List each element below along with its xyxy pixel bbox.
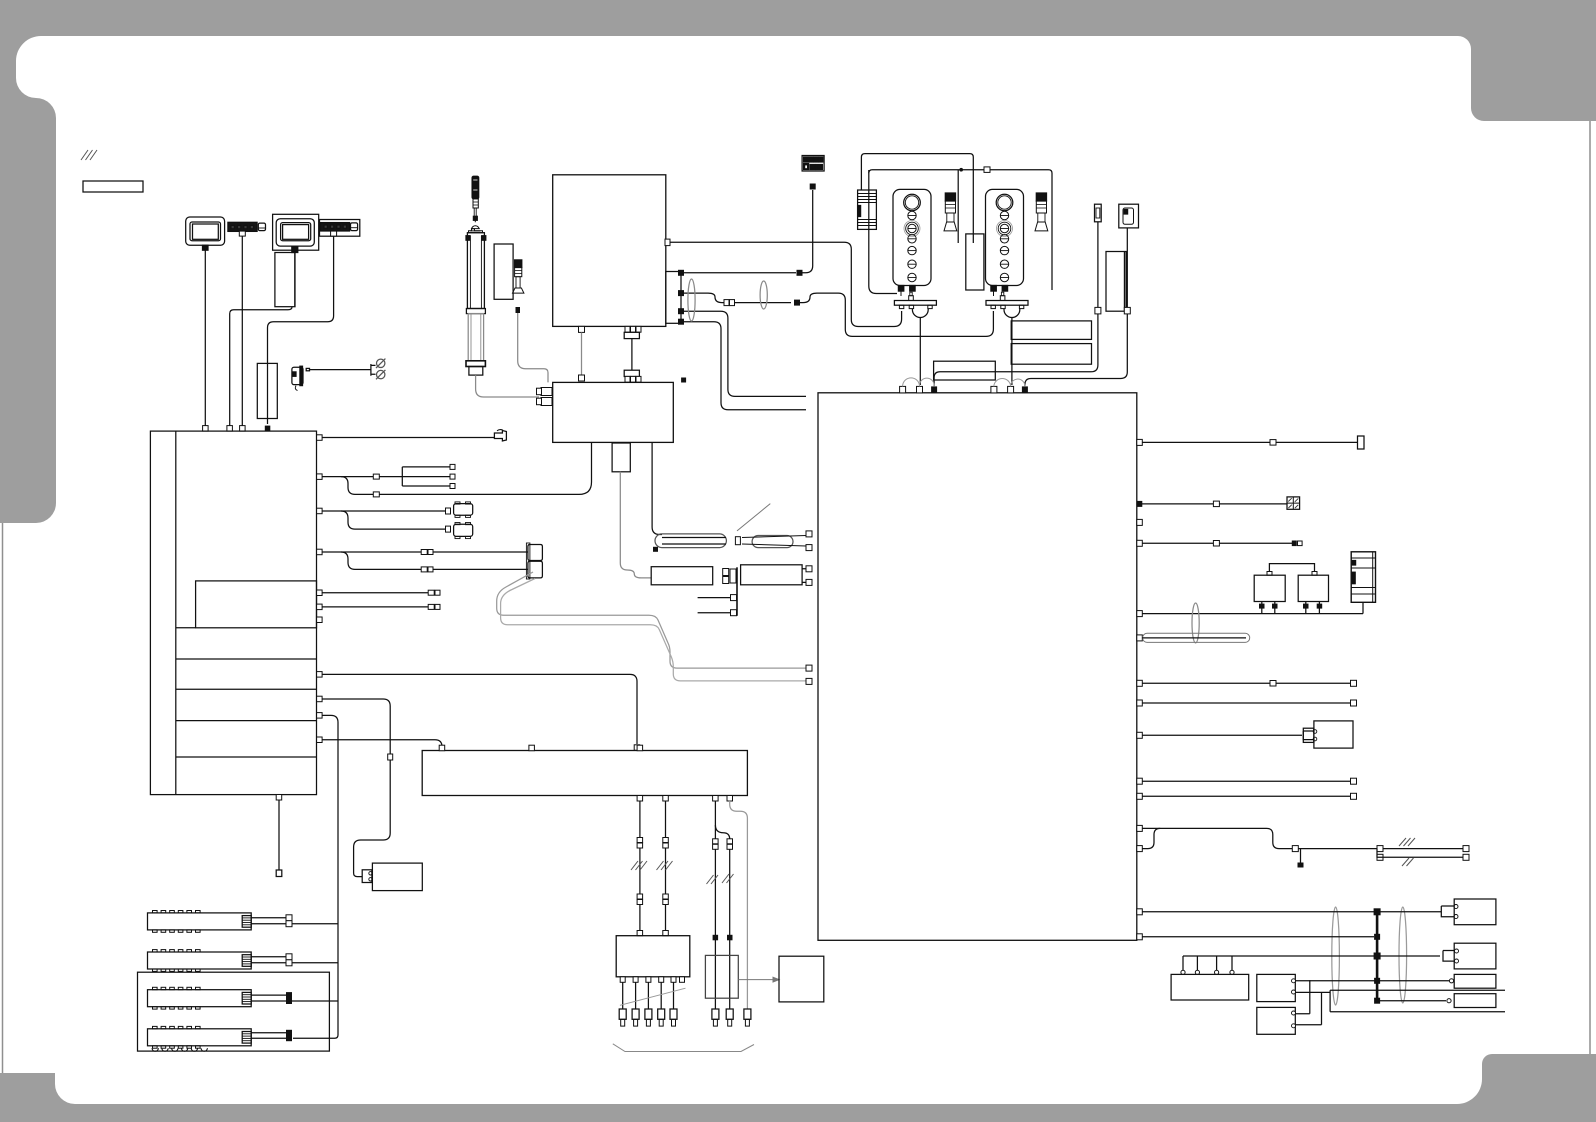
leg c shield box	[705, 955, 738, 998]
gauge G1 tachometer	[186, 217, 225, 250]
pump motor M1	[454, 502, 473, 518]
wire control M1 to lamp L3	[1296, 978, 1454, 984]
wire gauge G1 to main harness box	[204, 250, 206, 426]
wire gauge G2 into junction box	[294, 253, 296, 307]
switch SW2 small	[1095, 204, 1102, 222]
terminal clip T2	[376, 370, 385, 379]
connector engine box spare stub	[1137, 519, 1143, 525]
wire harness box long feed to distribution box	[341, 442, 592, 497]
rectifier regulator	[858, 190, 877, 229]
sub panel divider stub	[176, 627, 196, 629]
wire sheath to engine box pair	[802, 566, 812, 586]
connector junction box lead	[227, 426, 233, 432]
wire harness box to pump motor M1	[317, 508, 451, 514]
wire engine box to neutral switch	[1137, 436, 1364, 449]
wire control M1 long lead	[1296, 990, 1506, 1012]
gauge G2 speedometer	[273, 214, 319, 252]
connector strip S1 lead	[239, 231, 245, 236]
shield hatch marks	[1399, 838, 1415, 866]
harness sheath ellipse E4	[1332, 907, 1340, 1005]
power bus bar	[1376, 912, 1379, 1001]
wire engine box diagnostic pair	[1137, 825, 1374, 851]
buzzer B1	[257, 363, 277, 418]
wire fuse box leg c pair	[713, 796, 733, 1010]
revision hatch mark	[81, 150, 97, 160]
connector plug S1 right	[258, 223, 265, 231]
ignition unit U2 cap bar	[986, 292, 1028, 317]
connector distribution top-right stub	[681, 378, 686, 383]
trim cylinder lower body	[468, 314, 483, 361]
wire ECM injector signal	[684, 311, 806, 396]
trim sensor assembly	[470, 176, 480, 231]
harness box row divider 2	[176, 688, 317, 690]
harness box row divider 4	[176, 756, 317, 758]
wire harness box to pump motor M2	[341, 511, 451, 532]
wire coil to plug 2	[635, 982, 637, 1009]
cable sheath label box 1	[651, 567, 713, 585]
fuse pull box	[1106, 252, 1126, 312]
bulk connector J1	[526, 543, 542, 579]
connector distribution left pair	[537, 388, 553, 406]
wire engine box sheathed lead	[1137, 633, 1250, 642]
page border line left	[2, 523, 4, 1073]
wire distribution gray route B	[501, 579, 806, 681]
wire engine box lead 8	[1137, 778, 1357, 784]
wire switch SW2 to engine box	[934, 222, 1101, 386]
starter relay box BR	[779, 956, 824, 1002]
connector block distribution top B	[624, 370, 641, 382]
junction box under gauge G2	[275, 253, 295, 307]
connector distribution box stub A	[579, 375, 585, 381]
wire trim sensor to distribution box	[476, 375, 539, 397]
wire switch SW1 to clip terminals	[310, 364, 376, 376]
ignition unit U2 body	[986, 189, 1024, 296]
connector capsule stub	[653, 547, 658, 552]
lamp tube unit T4	[148, 1026, 252, 1048]
wire ECM block B to distribution box	[631, 339, 633, 371]
wire ECM pulser pair upper	[684, 293, 993, 336]
trim cylinder base flange	[466, 361, 485, 367]
fuse block F1	[802, 156, 824, 172]
wire stator loop inner	[869, 167, 1052, 294]
wire engine box sensor lead	[1137, 540, 1302, 546]
note box N2	[1011, 344, 1091, 365]
wire U1 dome to engine box	[919, 318, 921, 386]
wire tube T1 leads	[251, 915, 338, 927]
sub panel inside harness box	[196, 581, 317, 628]
wire coil to plug 3	[647, 982, 649, 1009]
capsule harness sheath 2	[742, 536, 806, 548]
wire relay link	[1269, 564, 1314, 572]
spark plug terminal TP1	[712, 1009, 719, 1026]
wire coil to plug 1	[622, 982, 624, 1009]
tube T4 scallops	[152, 1048, 207, 1051]
note box N3	[934, 361, 996, 380]
wire harness box stub pair 2	[317, 604, 440, 610]
connector engine box capsule pair	[806, 531, 812, 551]
pump motor M2	[454, 523, 473, 539]
terminal clip T1	[376, 359, 385, 368]
control box M2	[1257, 1007, 1296, 1034]
distribution junction box	[553, 382, 674, 442]
lamp unit L2	[1443, 943, 1496, 969]
trim cylinder base cap	[469, 367, 483, 376]
battery	[1351, 552, 1375, 603]
relay R1	[1254, 572, 1285, 602]
engine control unit box	[818, 393, 1137, 941]
joint connector bar	[698, 567, 737, 616]
wire ECM relay feed	[684, 184, 816, 276]
wire fuse box leg a	[637, 796, 643, 936]
connector engine box route pair	[806, 665, 812, 684]
spacer plate between units	[966, 234, 984, 290]
wire fuse box leg d	[727, 796, 747, 1010]
control box M1	[1257, 974, 1296, 1001]
bracket plate beside sensor	[494, 244, 513, 299]
capsule harness sheath 1	[655, 534, 726, 548]
wire bus to lamp L4	[1374, 998, 1451, 1004]
wire ECM to flywheel loop	[670, 242, 902, 326]
ECM main box	[553, 175, 666, 327]
wire fuse box leg b	[663, 796, 669, 936]
engine box top stub group 1	[900, 378, 938, 393]
shield hatch leg a	[631, 861, 647, 870]
harness sheath ellipse E5	[1399, 907, 1407, 1003]
sensor S5 with plug	[1303, 721, 1353, 748]
lamp unit L3	[1454, 974, 1496, 988]
wire distribution to capsule harness	[652, 442, 662, 534]
wire strip S2 to main harness box	[268, 236, 334, 424]
connector plug S2 right	[351, 223, 358, 231]
wire harness box to fuse box top	[317, 737, 442, 748]
connector buzzer lead	[265, 426, 271, 432]
cable sheath label box 2	[741, 565, 803, 585]
connector spark sensor lead	[516, 307, 521, 313]
harness sheath ellipse E2	[760, 281, 767, 309]
main harness junction box	[150, 431, 316, 794]
wire engine box to sensor S5	[1137, 732, 1302, 738]
wire coil to plug 5	[673, 982, 675, 1009]
harness sheath ellipse E1	[688, 279, 695, 321]
wire control M2 leads	[1296, 980, 1322, 1025]
connector strip S2	[321, 223, 350, 231]
note box N1	[1011, 321, 1091, 340]
wire ECM pulser pair lower	[684, 322, 806, 410]
shield hatch leg b	[657, 861, 673, 870]
annotation leader line	[737, 504, 770, 531]
harness sheath ellipse E3	[1192, 603, 1199, 643]
wire tube T4 leads	[251, 1030, 292, 1041]
spark plug cap U1	[944, 193, 957, 231]
cooling fan symbol	[1287, 497, 1300, 509]
spark plug terminal row	[619, 1009, 677, 1026]
connector ECM bottom stub A	[579, 326, 585, 332]
wire distribution to cable sheath label	[612, 443, 651, 578]
wire engine box lead 7	[1137, 700, 1357, 706]
starter solenoid box	[362, 863, 422, 891]
connector capsule mid	[735, 537, 740, 545]
wire engine box lead 6	[1137, 680, 1357, 686]
wire harness box bottom ground lead	[276, 795, 282, 877]
wire diagnostic ground stub	[1298, 849, 1304, 868]
spark plug terminal TP2	[726, 1009, 733, 1026]
wire switch SW3 to engine box	[1025, 228, 1130, 386]
connector harness box spare stub	[317, 617, 323, 623]
lamp tube unit T3	[148, 987, 252, 1009]
wire harness box stub pair 1	[317, 590, 440, 596]
wire engine box main power to battery	[1137, 602, 1363, 616]
group bracket	[613, 1044, 754, 1052]
lamp unit L4	[1454, 994, 1496, 1008]
wire engine box lead 9	[1137, 793, 1357, 799]
wire bus to lamp L2	[1183, 953, 1440, 960]
wire engine box to bus 2	[1137, 934, 1380, 940]
lamp unit L1	[1441, 899, 1496, 925]
wire coil to plug 4	[660, 982, 662, 1009]
arrow to starter box	[738, 977, 779, 982]
spark plug symbol small	[513, 260, 524, 293]
connector strip S2 frame	[320, 220, 360, 237]
ignition coil box	[616, 936, 690, 977]
wire spark sensor to distribution box	[518, 313, 548, 382]
wire harness box to fuse holder box	[317, 672, 640, 751]
switch SW3 main	[1119, 204, 1139, 228]
trim sender plug P1	[494, 430, 506, 441]
ignition coil bottom stubs	[620, 977, 684, 983]
harness box row divider 3	[176, 720, 317, 722]
wire distribution gray route A	[497, 572, 806, 668]
annotation diagonal	[620, 988, 686, 1005]
ignition unit U1 cap bar	[894, 292, 936, 317]
wire harness box to bulk connector lower	[341, 552, 528, 572]
emergency stop switch SW1	[292, 366, 310, 390]
trim cylinder upper body	[466, 229, 486, 309]
wire ECM stub A to distribution box	[581, 332, 583, 375]
connector block ECM bottom B	[624, 326, 641, 338]
fuse junction long box	[422, 745, 747, 795]
connector sheath mid pair	[723, 569, 736, 584]
wire stator loop outer	[861, 154, 973, 243]
spark plug terminal TP3	[744, 1009, 751, 1026]
wire harness box feed 2 with splitter	[317, 464, 455, 488]
wire comb to switch panel	[1181, 956, 1234, 975]
engine box top stub group 2	[991, 378, 1028, 392]
connector strip S2 lead	[331, 231, 337, 236]
connector ECM upper-right lead	[665, 239, 670, 246]
lamp tube unit T2	[148, 950, 252, 972]
wire U2 dome to engine box	[1011, 318, 1013, 386]
lamp tube unit T1	[148, 911, 252, 933]
title label box	[83, 181, 143, 192]
spark plug cap U2	[1035, 193, 1048, 231]
wire relay R2 legs	[1303, 602, 1322, 614]
wire harness box to trim sender plug	[317, 435, 495, 441]
page border line right	[1589, 121, 1591, 1054]
ignition unit U1 body	[893, 189, 931, 296]
wire junction box to main harness box	[230, 307, 292, 426]
wire tube T2 leads	[251, 954, 338, 966]
shield hatch leg c	[707, 874, 734, 884]
wire stator branch	[957, 170, 959, 243]
connector strip S1 lower lead	[240, 426, 246, 432]
switch panel box	[1171, 974, 1249, 1000]
wire tube T3 leads	[251, 992, 338, 1004]
connector gauge G1 lead	[203, 426, 209, 432]
wire strip S1 to main harness box	[241, 236, 243, 426]
relay R2	[1298, 572, 1328, 602]
wire harness box to bulk connector upper	[317, 549, 528, 555]
wire engine box to cooling fan	[1137, 501, 1287, 507]
ECM side connector block	[666, 270, 684, 325]
trim cylinder flange	[466, 309, 485, 314]
wire harness box to starter relay	[317, 696, 393, 876]
harness box row divider 1	[176, 658, 317, 660]
tube group enclosure box	[138, 972, 330, 1051]
wire shielded pair to data link	[1374, 846, 1469, 861]
wire engine box to lamp L1	[1137, 908, 1441, 915]
wire relay R1 legs	[1259, 602, 1278, 614]
wire harness box to gauge feed trunk	[293, 713, 338, 1039]
connector strip S1	[228, 222, 257, 231]
